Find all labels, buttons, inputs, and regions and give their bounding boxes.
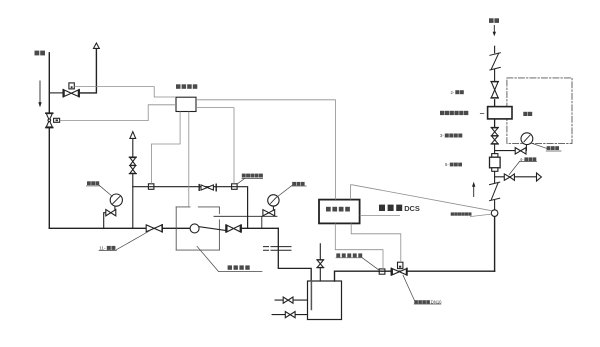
signal: control box1 to transmitter PT2	[196, 108, 234, 184]
label 小信号传感器	[451, 212, 472, 215]
check valve 4 on branch	[504, 174, 514, 180]
tank side valve (upper)	[275, 297, 307, 303]
wire: blower outlet slant to valve	[199, 227, 225, 231]
label 11-阀阀	[99, 246, 115, 251]
svg-text:3-: 3-	[440, 133, 444, 138]
tank dip tube	[310, 281, 312, 310]
label 压力表 (left)	[87, 181, 99, 185]
label 压力变送器 (PT2)	[242, 174, 263, 178]
wire: boiler gauge branch	[495, 145, 527, 151]
vent arrow (open triangle) middle	[130, 132, 136, 139]
label 接锅炉DCS	[379, 204, 420, 213]
label 锅炉	[523, 112, 532, 116]
boiler boundary (dash-dot box)	[507, 78, 572, 143]
signal: sensor label leader	[470, 214, 491, 217]
wire: gauge branch drop to main line	[261, 216, 263, 228]
signal: control box2 to solenoid SV1	[351, 223, 401, 262]
pipe break symbol (upper)	[490, 53, 500, 70]
control system box 1	[176, 84, 197, 111]
label 5-阻火器	[445, 162, 462, 167]
wire: branch to boiler burner (right)	[495, 176, 537, 178]
label 3-手动球阀	[440, 133, 462, 138]
label leader: 压力表 (left)	[87, 185, 113, 196]
three-way valve V10 on gas line	[46, 113, 60, 127]
label leader: 压力变送器 (PT3)	[336, 258, 379, 270]
label 压力表 (boiler)	[547, 146, 559, 150]
pressure gauge PG3 (boiler)	[521, 133, 533, 145]
svg-text:5-: 5-	[445, 162, 449, 167]
wire: upper bypass pipe	[133, 187, 248, 229]
buffer tank T1	[308, 281, 342, 320]
label leader: 压力变送器 (PT2)	[237, 178, 263, 184]
wire: main line valve to downcomer	[241, 227, 278, 229]
vent arrow (open triangle) top left	[94, 43, 100, 48]
solenoid valve SV1 on lower line	[391, 262, 407, 275]
pressure gauge PG2 (right of blower) with valve	[263, 195, 279, 216]
label leader: 罗茨风机	[197, 246, 262, 271]
flame arrester FA1	[490, 154, 501, 172]
flow arrow (up) beside boiler column	[472, 182, 475, 197]
wire: sensor to z-break	[494, 200, 496, 210]
label 罗茨风机	[228, 265, 250, 269]
air supply arrow (down)	[493, 25, 496, 36]
wire: flame arrester to gauge tee	[494, 144, 496, 153]
signal wires (thin gray)	[60, 87, 492, 269]
label 4-单向阀	[520, 157, 537, 162]
node: gas source label 气源	[35, 51, 46, 56]
label 2-阀阀	[451, 90, 464, 95]
label 沼气掺烧装置	[440, 111, 468, 115]
control system box 2	[319, 200, 360, 224]
label leader: 4-check valve	[509, 161, 536, 174]
wire: branch to vent control valve	[49, 92, 63, 94]
svg-text:4-: 4-	[520, 157, 524, 162]
roots blower B1 (circle)	[190, 224, 199, 233]
valve 11 on main line	[146, 225, 162, 232]
label leader dash to device	[480, 112, 484, 114]
flexible connection / union on downcomer	[264, 247, 292, 251]
manual ball valve 3 (double)	[491, 128, 498, 145]
gate valve on bypass pipe	[199, 184, 216, 191]
wire: downcomer to tank inlet	[278, 228, 311, 281]
label 控制系统 (box1)	[176, 84, 197, 89]
double shut-off valve on vent riser	[129, 157, 136, 173]
wire: lower line riser to boiler column	[494, 216, 496, 271]
label 压力变送器 (PT3)	[336, 253, 362, 257]
tank relief valve on top	[317, 244, 324, 281]
roots blower enclosure (dashed open box)	[176, 207, 219, 250]
label 压力表 (right)	[292, 182, 304, 186]
outlet arrow (open) on branch	[537, 173, 542, 181]
signal: sensor circle to control box2	[351, 185, 492, 211]
pressure transmitter PT3 on lower line	[379, 269, 385, 274]
label 控制系统 (box2)	[326, 207, 350, 212]
label 电磁阀DN10	[414, 300, 442, 305]
signal: control box1 to control box2	[196, 100, 335, 200]
signal: control box2 to transmitter PT3	[335, 223, 383, 269]
signal: control box1 to blower	[188, 112, 190, 207]
svg-text:DN10: DN10	[431, 300, 442, 305]
label 供风	[489, 18, 499, 23]
wire: tank outlet riser and lower main line to boiler	[335, 271, 495, 281]
label leader: 压力表 (right)	[278, 185, 306, 196]
signal: control box2 to boiler DCS	[360, 214, 400, 216]
signal: control box1 to transmitter PT1	[151, 112, 180, 184]
wire: main gas line horizontal bottom	[49, 227, 190, 229]
wire: valve2 up to break	[494, 70, 496, 82]
signal: control valve V1 to control box 1	[74, 87, 176, 97]
shut-off valve 2	[491, 82, 498, 99]
wire: break to air supply arrow	[494, 46, 496, 53]
biogas co-firing device box	[488, 107, 512, 119]
wire: blower pressure tap line	[214, 215, 277, 217]
wire: ball valve to burner device	[494, 100, 496, 128]
label leader: 11-valve	[99, 231, 150, 251]
isolation valve on boiler gauge branch	[515, 148, 526, 154]
signal: three-way valve to control box 1	[60, 105, 176, 121]
svg-text:2-: 2-	[451, 90, 455, 95]
pressure gauge PG1 (left) with isolation valve	[104, 194, 123, 228]
control valve V1 (with actuator)	[63, 83, 79, 97]
wire: branch tee up to flame arrester	[494, 171, 496, 177]
wire: vent riser with arrow	[132, 138, 134, 228]
wire: z-break to branch tee	[494, 177, 496, 183]
flow arrow (down) beside gas line	[38, 81, 41, 107]
label leader: solenoid valve DN	[403, 275, 441, 304]
pressure transmitter square PT2 on bypass	[232, 184, 238, 190]
pressure sensor node (circle)	[491, 210, 498, 217]
tank side valve (lower)	[272, 312, 307, 318]
svg-text:11-: 11-	[99, 246, 106, 251]
label leader: 压力表 (boiler)	[531, 143, 561, 151]
pressure transmitter square PT1 on bypass	[148, 184, 154, 190]
wire: control valve outlet to vent riser	[79, 48, 96, 93]
valve after blower	[226, 225, 241, 232]
pipe break symbol (lower)	[490, 182, 500, 201]
svg-text:DCS: DCS	[404, 204, 420, 213]
wire: gas source main vertical line	[48, 53, 50, 229]
